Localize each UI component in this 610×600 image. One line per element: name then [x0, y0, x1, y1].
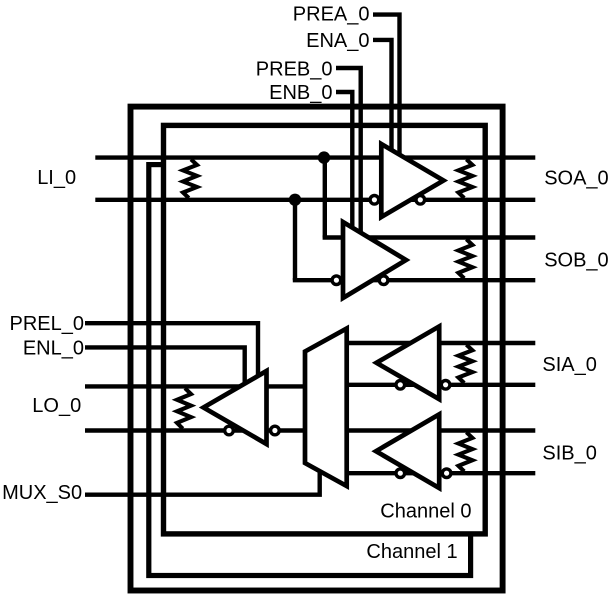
svg-text:LO_0: LO_0: [32, 395, 81, 417]
wire branch to buffer B enable line (vertical): [293, 200, 297, 280]
wire SIA_0 top line: [344, 341, 535, 345]
wire LI_0 / SOA_0 top line: [95, 155, 535, 159]
Channel 1 box: [149, 165, 471, 576]
receiver A (SIA): [377, 326, 440, 399]
svg-text:Channel 0: Channel 0: [380, 501, 471, 523]
junction node on LI_0 bottom line: [289, 194, 301, 206]
resistor on SOB_0 pair: [458, 239, 472, 278]
svg-text:ENA_0: ENA_0: [306, 30, 369, 52]
wire SIB_0 top line: [344, 428, 535, 432]
wire branch to buffer B input (vertical): [323, 158, 327, 238]
wire ENA_0 stub: [373, 40, 392, 150]
wire SIB_0 bottom line: [344, 471, 535, 475]
bubble buffer A en2: [416, 196, 425, 205]
outer channel-group box: [131, 107, 503, 591]
resistor on LI_0 pair: [183, 159, 197, 198]
receiver B (SIB): [376, 414, 439, 488]
wire PREL_0 stub: [85, 323, 258, 377]
Channel 0 box: [164, 125, 486, 534]
resistor on SIA_0 pair: [458, 345, 472, 383]
svg-text:SOA_0: SOA_0: [544, 167, 608, 189]
svg-text:LI_0: LI_0: [37, 167, 76, 189]
svg-text:Channel 1: Channel 1: [366, 541, 457, 563]
svg-text:SOB_0: SOB_0: [544, 250, 608, 272]
wire SIA_0 bottom line: [344, 383, 535, 387]
svg-text:PREB_0: PREB_0: [256, 58, 333, 80]
svg-text:ENL_0: ENL_0: [23, 338, 84, 360]
svg-text:SIB_0: SIB_0: [542, 442, 596, 464]
wire PREB_0 stub: [336, 68, 361, 234]
buffer A (SOA driver): [381, 144, 443, 217]
wire MUX_S0: [85, 468, 320, 495]
bubble buffer B en1: [332, 276, 341, 285]
mux trapezoid: [305, 329, 347, 487]
resistor on SIB_0 pair: [458, 432, 472, 471]
wire ENL_0 stub: [85, 347, 245, 385]
bubble buffer L en1: [225, 426, 234, 435]
bubble buffer A en1: [370, 196, 379, 205]
wire LO_0 bottom line: [85, 428, 308, 432]
bubble receiver B en2: [442, 469, 451, 478]
wire buffer B input / SOB_0 top line: [323, 235, 536, 239]
junction node on LI_0 top line: [318, 151, 330, 163]
bubble buffer L en2: [271, 426, 280, 435]
bubble buffer B en2: [379, 276, 388, 285]
svg-text:ENB_0: ENB_0: [269, 82, 332, 104]
wire ENB_0 stub: [336, 92, 352, 229]
resistor on LO_0 pair: [177, 388, 191, 429]
svg-text:SIA_0: SIA_0: [542, 354, 596, 376]
buffer L (LO driver): [204, 371, 267, 444]
wire LI_0 / SOA_0 bottom line: [95, 198, 535, 202]
svg-text:PREA_0: PREA_0: [293, 3, 370, 25]
svg-text:MUX_S0: MUX_S0: [2, 482, 82, 504]
bubble receiver B en1: [396, 469, 405, 478]
resistor on SOA_0 pair: [458, 159, 472, 198]
wire PREA_0 stub: [373, 15, 400, 155]
buffer B (SOB driver): [343, 222, 406, 298]
wire SOB_0 bottom line: [293, 278, 536, 282]
bubble receiver A en2: [441, 381, 450, 390]
svg-text:PREL_0: PREL_0: [10, 313, 85, 335]
wire LO_0 top line: [85, 384, 308, 388]
bubble receiver A en1: [396, 381, 405, 390]
